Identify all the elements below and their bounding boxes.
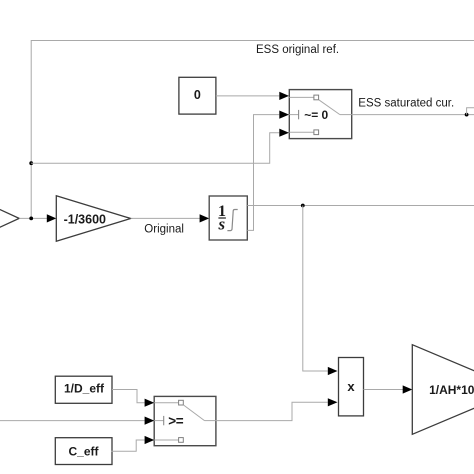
arrowhead into switch SW2 top input: [145, 399, 155, 407]
integrator block 1/s: [209, 196, 247, 240]
arrowhead into switch middle input: [279, 111, 289, 119]
wire product to gain G2: [364, 389, 404, 391]
svg-text:>=: >=: [168, 414, 183, 429]
constant block 0: [179, 77, 216, 114]
arrowhead into product top input: [328, 367, 338, 375]
gain G2 1/AH*100 (clipped at right edge): [412, 345, 474, 435]
wire from left gain to gain -1/3600: [19, 217, 47, 219]
arrowhead into integrator: [200, 214, 210, 222]
wire 1/D_eff to switch SW2 top input: [112, 390, 145, 403]
wire integrator output to right edge: [247, 205, 474, 207]
arrowhead into gain G2: [403, 385, 413, 393]
node C junction dot near right edge: [465, 113, 469, 117]
arrowhead into gain -1/3600: [47, 214, 57, 222]
wire branch up from node C to right edge: [467, 108, 474, 115]
wire node D down to product top input: [303, 206, 328, 372]
wire gain G1 to integrator: [131, 217, 201, 219]
gain G1 -1/3600: [56, 196, 130, 242]
svg-text:ESS saturated cur.: ESS saturated cur.: [358, 97, 454, 109]
svg-text:~= 0: ~= 0: [304, 108, 328, 122]
switch SW1 ~= 0: [289, 90, 351, 139]
svg-text:1/AH*100: 1/AH*100: [429, 383, 474, 397]
arrowhead into switch SW2 bottom input: [145, 436, 155, 444]
wire top feedback: from node A up and across to right edge: [31, 41, 474, 219]
switch SW2 >=: [154, 396, 216, 445]
svg-text:Original: Original: [144, 223, 184, 235]
node A junction dot: [29, 217, 33, 221]
gain block (partial, left edge): [0, 200, 19, 236]
wire integrator saturation out to switch middle input: [247, 115, 279, 231]
svg-text:ESS original ref.: ESS original ref.: [256, 44, 339, 56]
constant block C_eff: [55, 438, 112, 465]
arrowhead into switch SW2 middle input: [145, 417, 155, 425]
arrowhead into product bottom input: [328, 398, 338, 406]
wire C_eff to switch SW2 bottom input: [111, 440, 144, 451]
svg-text:0: 0: [194, 88, 201, 102]
integrator saturation icon: [227, 210, 237, 231]
product block x: [339, 358, 364, 416]
svg-text:C_eff: C_eff: [68, 444, 99, 458]
wire from node B to switch bottom input: [31, 133, 279, 164]
constant block 1/D_eff: [55, 376, 112, 403]
wire constant to switch top input: [216, 95, 279, 97]
arrowhead into switch bottom input: [279, 129, 289, 137]
svg-text:-1/3600: -1/3600: [64, 212, 106, 226]
node D junction dot: [301, 204, 305, 208]
svg-text:1/D_eff: 1/D_eff: [64, 382, 105, 396]
arrowhead into switch top input: [279, 92, 289, 100]
wire switch SW1 output to right edge: [352, 114, 474, 116]
wire from left edge to switch SW2 middle input: [0, 420, 145, 422]
svg-text:x: x: [347, 379, 355, 394]
node B junction dot on feedback branch: [29, 161, 33, 165]
wire switch SW2 output to product bottom input: [216, 402, 328, 420]
